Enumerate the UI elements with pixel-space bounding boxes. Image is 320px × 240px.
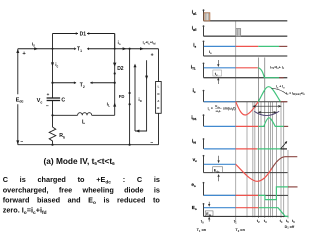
row ic pointer curve <box>272 88 287 94</box>
diode D1 <box>53 32 115 38</box>
row ic double arrow 2 <box>258 111 276 113</box>
row is trace <box>204 45 287 47</box>
row ig1 gate pulse <box>204 13 210 21</box>
axis time labels <box>201 219 295 224</box>
svg-text:O: O <box>157 92 159 96</box>
row vc Edc annotation <box>213 156 223 181</box>
thyristor T2 <box>51 81 115 88</box>
svg-text:D: D <box>157 106 159 110</box>
row Eo Em annotation <box>205 202 213 222</box>
wire right vertical with D2 <box>113 34 116 116</box>
row iT1 trace <box>204 68 284 78</box>
row iT1 axis <box>191 63 287 78</box>
wire bottom rail <box>18 144 159 146</box>
row is axis <box>193 41 287 57</box>
svg-text:ω0L: ω0L <box>216 109 222 114</box>
row iD1 trace <box>204 118 288 127</box>
row ic double arrow 1 <box>253 105 281 107</box>
node junction cap-L-R <box>51 114 53 116</box>
svg-text:+: + <box>47 92 50 97</box>
row vc axis <box>193 155 288 173</box>
row eo trace <box>204 187 298 200</box>
row ic purple arc <box>254 111 279 115</box>
row iT1 tc annotation <box>213 60 222 84</box>
svg-text:D1: D1 <box>80 32 87 38</box>
gridline cluster <box>247 102 288 219</box>
source Edc <box>16 49 27 145</box>
diode FD <box>119 48 131 145</box>
row ig2 gate pulse <box>236 29 241 37</box>
thyristor T1 <box>74 47 89 53</box>
load box <box>150 49 161 146</box>
row ifd trace <box>204 148 287 150</box>
wire top rail <box>18 47 159 50</box>
inductor L <box>53 113 115 126</box>
row Eo axis <box>192 203 288 216</box>
svg-text:D2: D2 <box>117 66 124 72</box>
row ic trace <box>204 87 287 115</box>
svg-text:overcharged, free wheeling dio: overcharged, free wheeling diode is <box>3 185 160 194</box>
row ifd axis <box>192 138 204 149</box>
svg-text:C is charged to +Edc : C is: C is charged to +Edc : C is <box>3 175 160 186</box>
gridline t1 <box>235 21 237 222</box>
wire resistor to bottom rail <box>52 143 54 145</box>
row iD1 axis <box>191 114 204 126</box>
row ic equation label <box>208 104 236 113</box>
wire D1 verticals <box>53 34 115 49</box>
svg-text:FD: FD <box>119 94 125 99</box>
node iL arrow <box>107 102 117 108</box>
gridline t2 <box>257 58 259 219</box>
svg-text:–: – <box>46 104 49 110</box>
node junction dots top rail <box>52 48 116 50</box>
svg-text:(a) Mode IV, t5<t<t6: (a) Mode IV, t5<t<t6 <box>44 156 116 166</box>
row eo axis <box>191 182 288 195</box>
row ig1 axis <box>192 9 287 20</box>
node ifd loop arrow <box>134 60 149 132</box>
row vc trace <box>204 157 297 182</box>
capacitor C <box>37 92 66 109</box>
wire below capacitor <box>52 101 54 128</box>
row ic axis <box>193 88 288 102</box>
svg-text:forward biased and Eo is reduc: forward biased and Eo is reduced to <box>3 196 161 207</box>
gridline t3 <box>264 58 266 219</box>
row ifd ramp arrow <box>281 141 288 149</box>
svg-text:+: + <box>151 52 154 58</box>
row ig2 axis <box>192 25 287 36</box>
svg-text:A: A <box>157 99 159 103</box>
svg-text:C: C <box>61 98 65 104</box>
resistor Rb <box>49 127 65 143</box>
row Eo trace <box>204 208 288 217</box>
wire left vertical <box>51 49 54 98</box>
